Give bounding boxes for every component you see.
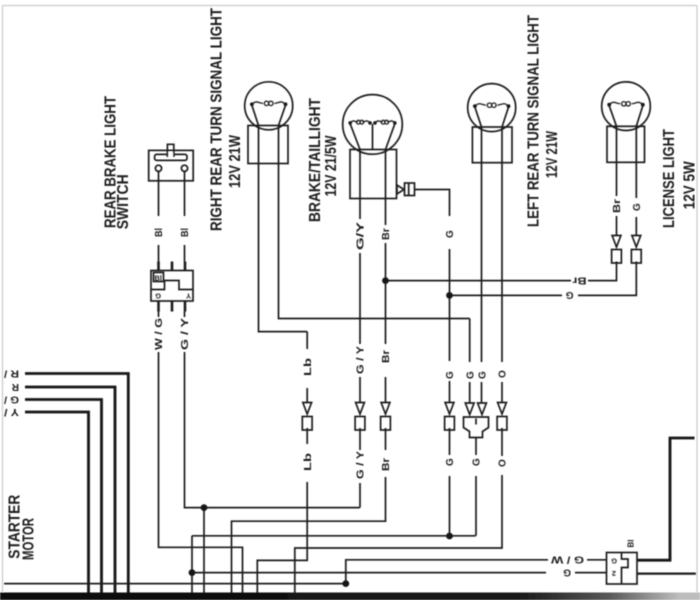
svg-text:Br: Br <box>381 350 392 363</box>
svg-text:12V 21W: 12V 21W <box>227 135 244 188</box>
svg-text:G / Y: G / Y <box>180 318 191 350</box>
svg-text:O: O <box>498 459 509 467</box>
svg-text:G / W: G / W <box>550 554 584 565</box>
svg-text:G: G <box>445 230 456 238</box>
svg-text:G / Y: G / Y <box>356 346 367 374</box>
svg-text:Lb: Lb <box>303 453 314 471</box>
svg-text:Y /: Y / <box>4 406 19 417</box>
svg-text:G: G <box>566 289 574 300</box>
svg-text:Bl: Bl <box>180 228 191 237</box>
svg-text:Br: Br <box>381 458 392 471</box>
svg-text:Lb: Lb <box>303 358 314 376</box>
svg-text:G: G <box>478 371 489 379</box>
svg-text:Br: Br <box>381 228 392 240</box>
svg-text:G: G <box>445 458 456 466</box>
svg-text:BRAKE/TAILLIGHT: BRAKE/TAILLIGHT <box>307 98 324 222</box>
svg-text:Bl: Bl <box>154 228 165 237</box>
svg-text:Br: Br <box>612 199 623 213</box>
svg-text:R: R <box>11 381 19 392</box>
svg-text:SWITCH: SWITCH <box>115 174 132 229</box>
svg-text:G: G <box>155 291 161 300</box>
svg-text:G/Y: G/Y <box>356 221 367 250</box>
svg-text:Y: Y <box>186 291 191 300</box>
svg-text:Bl: Bl <box>626 540 635 548</box>
svg-text:12V 21W: 12V 21W <box>544 131 561 178</box>
svg-text:G: G <box>445 371 456 379</box>
svg-text:G: G <box>611 556 617 565</box>
svg-text:W / G: W / G <box>154 318 165 350</box>
svg-text:G: G <box>563 566 571 577</box>
svg-text:G: G <box>632 203 643 211</box>
svg-text:Bl: Bl <box>155 274 163 283</box>
svg-text:12V 21/5W: 12V 21/5W <box>323 135 340 196</box>
svg-text:12V 5W: 12V 5W <box>682 161 699 209</box>
svg-text:RIGHT REAR TURN SIGNAL LIGHT: RIGHT REAR TURN SIGNAL LIGHT <box>208 8 225 231</box>
svg-text:G: G <box>472 458 483 466</box>
svg-text:LICENSE LIGHT: LICENSE LIGHT <box>661 129 678 228</box>
svg-text:2: 2 <box>612 569 616 578</box>
svg-text:LEFT REAR TURN SIGNAL LIGHT: LEFT REAR TURN SIGNAL LIGHT <box>526 15 543 227</box>
svg-text:R /: R / <box>4 367 19 378</box>
svg-text:Br: Br <box>572 274 586 285</box>
svg-text:MOTOR: MOTOR <box>21 518 38 560</box>
svg-text:G: G <box>465 371 476 379</box>
svg-text:G / Y: G / Y <box>356 451 367 479</box>
svg-text:O: O <box>498 370 509 378</box>
svg-text:G /: G / <box>4 393 19 404</box>
